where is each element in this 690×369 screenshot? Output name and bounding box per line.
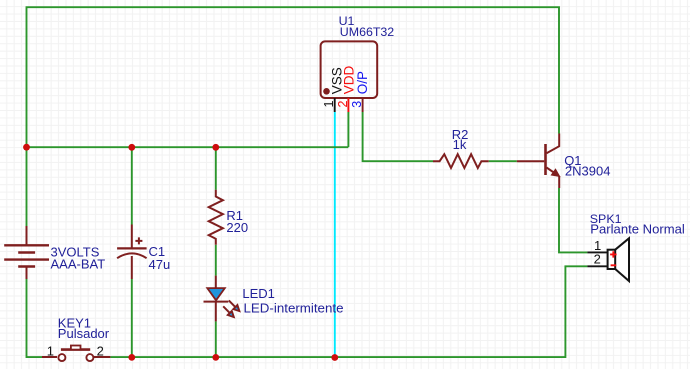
svg-text:2N3904: 2N3904 [565, 163, 611, 178]
svg-text:2: 2 [594, 251, 601, 266]
svg-text:47u: 47u [149, 257, 171, 272]
svg-text:1: 1 [47, 344, 54, 359]
svg-text:2: 2 [336, 101, 350, 108]
svg-text:1: 1 [322, 101, 336, 108]
svg-text:2: 2 [97, 344, 104, 359]
svg-text:Pulsador: Pulsador [58, 326, 110, 341]
svg-text:3: 3 [350, 101, 364, 108]
svg-text:220: 220 [226, 220, 248, 235]
svg-text:1k: 1k [453, 137, 467, 152]
svg-text:AAA-BAT: AAA-BAT [51, 256, 106, 271]
svg-text:O/P: O/P [355, 71, 370, 94]
svg-text:LED1: LED1 [242, 286, 275, 301]
svg-text:UM66T32: UM66T32 [340, 25, 395, 39]
svg-text:Parlante Normal: Parlante Normal [590, 222, 685, 237]
svg-text:LED-intermitente: LED-intermitente [244, 300, 344, 315]
